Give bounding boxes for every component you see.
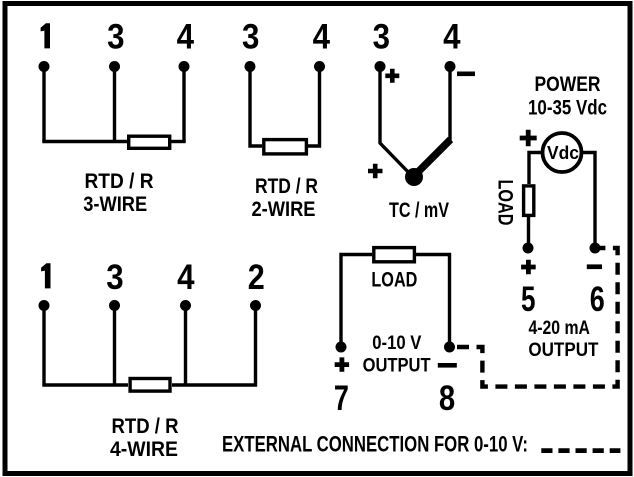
svg-text:3-WIRE: 3-WIRE	[83, 193, 147, 216]
wire 4-wire terminal1	[44, 306, 128, 386]
terminal dot 4 (2-wire)	[314, 61, 325, 72]
meter Vdc circle	[543, 133, 582, 172]
svg-text:4-WIRE: 4-WIRE	[110, 438, 178, 461]
terminal dot 4	[179, 61, 190, 72]
terminal dot 4 (TC)	[445, 61, 456, 72]
svg-text:4: 4	[177, 18, 195, 57]
minus sign at terminal 4	[457, 72, 475, 77]
svg-text:0-10 V: 0-10 V	[372, 333, 421, 354]
terminal dot 5	[523, 243, 534, 254]
dashed external connection wire 8 to 6	[457, 248, 618, 387]
svg-text:Vdc: Vdc	[547, 143, 579, 163]
wire resistor to terminal4	[171, 140, 186, 143]
plus sign at terminal 3	[385, 69, 399, 83]
minus sign below terminal 6	[587, 264, 602, 269]
svg-text:OUTPUT: OUTPUT	[363, 356, 431, 377]
svg-text:LOAD: LOAD	[371, 269, 417, 292]
svg-text:2: 2	[248, 258, 265, 297]
terminal dot 1 (4-wire)	[39, 300, 50, 311]
terminal dot 6	[590, 243, 601, 254]
wire terminal4 down	[182, 67, 185, 142]
svg-text:RTD / R: RTD / R	[85, 170, 154, 193]
terminal dot 1	[39, 61, 50, 72]
svg-text:3: 3	[373, 18, 390, 57]
svg-text:LOAD: LOAD	[494, 180, 517, 226]
plus sign lower left of junction	[368, 164, 383, 179]
wire load left to terminal 7	[341, 255, 372, 348]
terminal dot 8	[444, 342, 455, 353]
TC thick diagonal	[414, 140, 451, 177]
svg-text:4: 4	[177, 258, 195, 297]
wire terminal1 down	[42, 67, 45, 142]
node 1 (RTD 3-wire, terminal 1 label)	[41, 23, 50, 48]
minus sign at terminal 8	[438, 363, 457, 368]
TC wire positive leg	[380, 67, 412, 177]
svg-text:10-35 Vdc: 10-35 Vdc	[528, 97, 607, 120]
svg-text:TC / mV: TC / mV	[389, 199, 449, 222]
wire 2-wire left	[250, 67, 262, 147]
wire 4-wire terminal2	[172, 306, 256, 386]
terminal dot 2 (4-wire)	[250, 300, 261, 311]
svg-text:6: 6	[590, 280, 605, 319]
wire 4-wire terminal4	[184, 306, 187, 386]
TC junction dot	[405, 168, 423, 186]
svg-text:3: 3	[106, 258, 123, 297]
wire bottom horizontal to resistor	[42, 140, 127, 143]
terminal dot 3 (4-wire)	[109, 300, 120, 311]
plus sign below terminal 5	[521, 260, 536, 275]
svg-text:4: 4	[443, 18, 461, 57]
svg-text:4: 4	[313, 18, 331, 57]
plus sign at terminal 7	[335, 357, 349, 371]
resistor RTD 3-wire	[129, 136, 170, 148]
wire 2-wire right	[308, 67, 320, 147]
plus sign above load	[520, 130, 537, 147]
svg-text:RTD / R: RTD / R	[255, 175, 318, 198]
svg-text:3: 3	[242, 18, 259, 57]
terminal dot 3 (TC)	[375, 61, 386, 72]
wire load right to terminal 8	[416, 255, 450, 348]
wire load to terminal 5	[527, 217, 530, 248]
wire meter left to load	[529, 153, 543, 185]
resistor LOAD (vertical)	[524, 186, 534, 216]
terminal dot 7	[336, 342, 347, 353]
svg-text:8: 8	[439, 379, 455, 418]
resistor RTD 4-wire	[130, 379, 170, 392]
terminal dot 4 (4-wire)	[180, 300, 191, 311]
svg-text:3: 3	[107, 18, 124, 57]
TC wire negative leg vertical	[448, 67, 451, 142]
svg-text:5: 5	[521, 280, 536, 319]
terminal dot 3	[109, 61, 120, 72]
wire 4-wire terminal3	[113, 306, 116, 386]
wire meter right down to terminal 6	[582, 153, 596, 249]
dashed legend sample	[541, 448, 620, 453]
svg-text:2-WIRE: 2-WIRE	[252, 198, 316, 221]
svg-text:OUTPUT: OUTPUT	[528, 340, 598, 361]
terminal dot 3 (2-wire)	[245, 61, 256, 72]
svg-text:7: 7	[334, 379, 349, 418]
svg-text:POWER: POWER	[535, 73, 601, 96]
svg-text:RTD / R: RTD / R	[112, 415, 179, 438]
resistor RTD 2-wire	[264, 140, 307, 154]
svg-text:EXTERNAL CONNECTION FOR 0-10 V: EXTERNAL CONNECTION FOR 0-10 V:	[222, 432, 528, 457]
resistor LOAD (0-10V output)	[374, 248, 415, 262]
svg-text:4-20 mA: 4-20 mA	[528, 318, 590, 339]
node 1 (RTD 4-wire label)	[41, 263, 50, 288]
wire terminal3 down	[113, 67, 116, 142]
